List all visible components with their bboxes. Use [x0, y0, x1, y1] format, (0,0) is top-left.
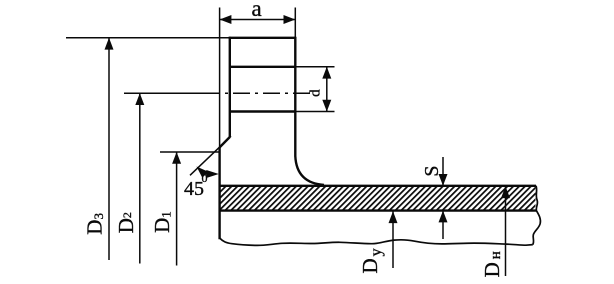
- pipe wall hatching: [221, 187, 536, 210]
- dimension line a: [220, 19, 296, 21]
- arrowhead D3: [105, 38, 114, 50]
- dimension line d: [326, 67, 328, 112]
- dimension line D1: [176, 152, 178, 266]
- flange raised face left edge: [218, 147, 220, 239]
- extension line right (dimension a): [294, 8, 296, 38]
- extension line d lower: [295, 111, 334, 113]
- pipe outer surface line: [220, 185, 536, 187]
- flange neck right edge: [294, 37, 296, 157]
- arrowhead S upper: [439, 174, 448, 186]
- dimension line S lower: [442, 211, 444, 239]
- bolt hole upper edge: [230, 66, 295, 68]
- extension line left (dimension a / flange face): [219, 8, 221, 149]
- svg-text:Dy: Dy: [358, 248, 385, 273]
- chamfer 45deg edge: [220, 137, 230, 147]
- svg-text:D1: D1: [150, 211, 174, 233]
- bottom break line (wavy): [220, 238, 533, 245]
- svg-text:D3: D3: [83, 213, 107, 235]
- fillet between neck and pipe: [295, 156, 324, 185]
- arrowhead a right: [284, 15, 296, 24]
- tail line 45 arrows: [203, 173, 214, 175]
- pipe right break edge (wavy): [533, 186, 541, 245]
- leader line D1: [160, 151, 220, 153]
- svg-text:d: d: [307, 89, 323, 97]
- svg-text:a: a: [252, 0, 262, 21]
- leader line 45deg chamfer: [190, 136, 231, 175]
- svg-text:D2: D2: [114, 212, 138, 233]
- arrowhead 45 on chamfer: [197, 167, 209, 178]
- svg-text:Dн: Dн: [480, 251, 504, 277]
- dimension line Dn: [505, 186, 507, 276]
- dimension line S upper: [442, 157, 444, 186]
- arrowhead 45 on face: [206, 170, 219, 178]
- arrowhead d upper: [322, 67, 331, 79]
- dimension line Dy: [392, 211, 394, 268]
- svg-text:0: 0: [202, 171, 208, 185]
- leader line D3 (top): [66, 37, 230, 39]
- flange neck left edge: [229, 37, 231, 138]
- svg-text:S: S: [421, 165, 443, 176]
- arrowhead D1: [172, 152, 181, 164]
- arrowhead D2: [135, 93, 144, 105]
- arrowhead a left: [220, 15, 232, 24]
- extension line d upper: [295, 66, 334, 68]
- dimension line D2: [139, 93, 141, 263]
- bolt hole lower edge: [230, 110, 295, 112]
- arrowhead d lower: [322, 100, 331, 112]
- leader line D2: [124, 92, 204, 94]
- arrowhead S lower: [439, 211, 448, 223]
- pipe inner surface line: [220, 209, 537, 211]
- flange neck top edge: [229, 37, 296, 39]
- dimension line D3: [108, 38, 110, 260]
- arrowhead Dn: [501, 186, 510, 198]
- arrowhead Dy: [389, 211, 398, 223]
- bolt hole centerline dash-dot: [203, 92, 310, 94]
